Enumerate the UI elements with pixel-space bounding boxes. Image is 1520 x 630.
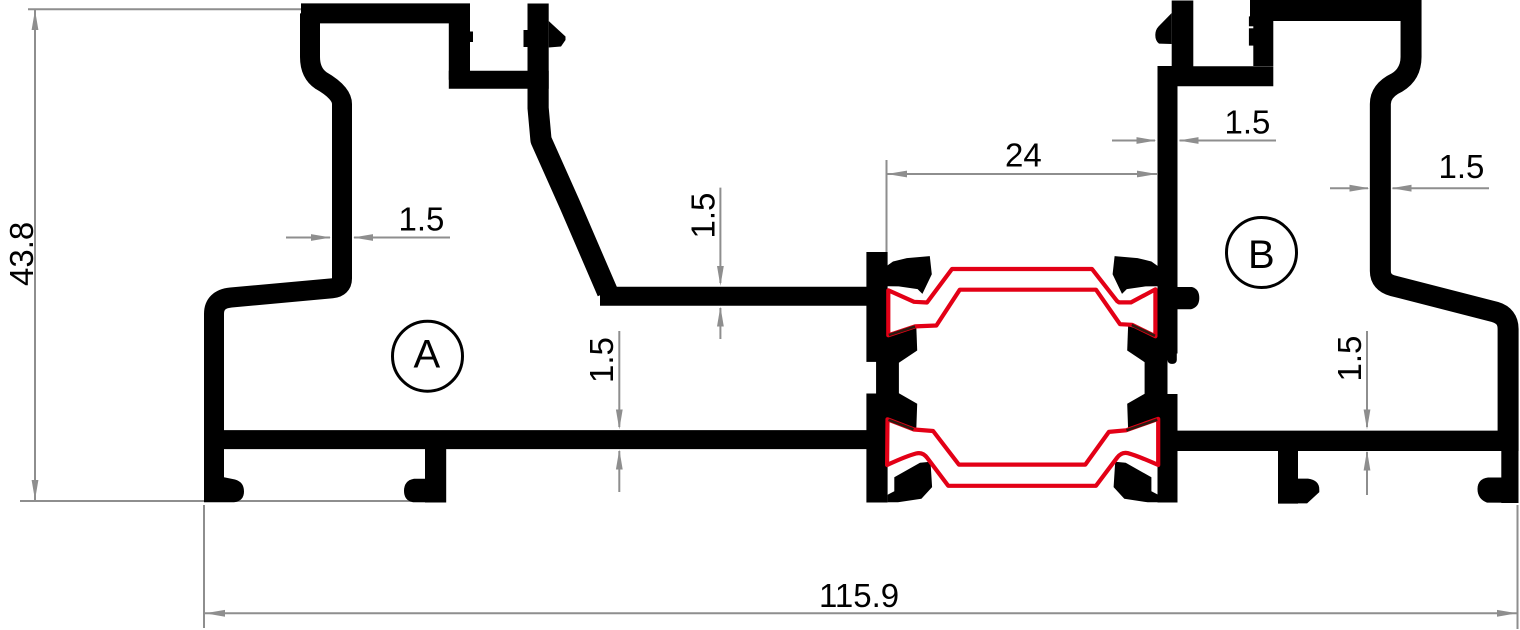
thermal break strip top (red): [888, 269, 1155, 336]
profile A foot 2 bar: [425, 449, 446, 503]
dimension 43.8 line: [34, 10, 36, 500]
profile A bottom wall: [204, 430, 877, 449]
dimension 24 arrow left: [887, 171, 907, 178]
profile A foot 2 toe: [404, 479, 446, 503]
dimension 1.5 A-bottom-wall line and arrows: [618, 331, 620, 427]
dimension 43.8 extension line bottom: [20, 500, 445, 502]
svg-text:43.8: 43.8: [3, 222, 40, 286]
dark dovetail edge bottom-right: [1127, 420, 1158, 431]
profile B middle foot toe: [1278, 479, 1319, 504]
dimension 115.9 arrow left: [205, 610, 225, 617]
profile B barb: [1155, 13, 1171, 44]
profile B stub serration 1: [1249, 16, 1254, 26]
label circle A: [393, 321, 463, 391]
svg-text:115.9: 115.9: [819, 577, 899, 614]
svg-text:24: 24: [1005, 137, 1042, 174]
profile A channel wall 2 and diagonal: [538, 4, 607, 293]
dimension 115.9 extension line left: [203, 505, 205, 628]
profile A clamp wedge below top strip: [886, 326, 917, 363]
profile A top cap: [301, 3, 470, 23]
profile B clamp wedge above bottom strip: [1127, 393, 1158, 429]
profile B clamp wedge below top strip: [1127, 326, 1158, 363]
profile A channel wall 1: [449, 13, 470, 79]
svg-text:1.5: 1.5: [685, 193, 722, 239]
profile B right foot bar: [1501, 451, 1518, 503]
svg-text:1.5: 1.5: [1225, 104, 1271, 141]
profile B clamp neck notch: [1168, 354, 1179, 395]
profile B right nub: [1178, 287, 1200, 309]
profile A foot 1 toe: [204, 465, 244, 502]
profile A barb: [549, 21, 566, 48]
dimension 1.5 B-right-wall arrows: [1330, 187, 1368, 189]
profile A left wall and shelf: [214, 13, 342, 502]
profile A clamp neck notch: [865, 362, 876, 394]
dimension 43.8 arrow up: [32, 10, 39, 30]
profile A channel wall2 serration: [524, 30, 528, 47]
dimension 24 arrow right: [1137, 171, 1157, 178]
profile B clamp flag jaw: [1113, 256, 1159, 294]
profile B bottom wall: [1167, 431, 1508, 451]
label circle B: [1227, 218, 1297, 288]
dimension 115.9 line: [205, 612, 1517, 614]
dimension 24 line: [887, 173, 1157, 175]
svg-text:A: A: [414, 333, 441, 377]
profile A clamp flag jaw: [886, 256, 932, 294]
svg-text:1.5: 1.5: [583, 337, 620, 383]
profile B clamp foot wedge: [1114, 462, 1159, 503]
dimension 24 extension line: [886, 160, 888, 286]
profile A channel wall1 serration: [470, 32, 473, 43]
profile A clamp wedge above bottom strip: [886, 393, 917, 429]
profile A clamp foot wedge: [888, 462, 933, 503]
dark dovetail edge bottom-left: [889, 420, 914, 430]
profile B top stub: [1172, 1, 1194, 71]
profile B stub serration 2: [1249, 28, 1254, 45]
profile A clamp neck block: [876, 362, 899, 395]
svg-text:1.5: 1.5: [1439, 148, 1485, 185]
profile B channel bottom shelf: [1158, 66, 1274, 86]
svg-text:B: B: [1248, 233, 1275, 277]
profile B channel wall 2 stub: [1253, 1, 1273, 67]
dark dovetail edge top-right: [1132, 325, 1155, 336]
profile A clamp column bar: [866, 252, 887, 503]
dimension 1.5 A-web line and arrows: [719, 188, 721, 283]
dimension 115.9 arrow right: [1497, 610, 1517, 617]
profile B clamp neck bump: [1168, 348, 1177, 364]
profile B middle foot bar: [1278, 449, 1298, 504]
dimension 115.9 extension line right: [1517, 505, 1519, 629]
profile A channel bottom: [449, 71, 549, 89]
dimension 1.5 A-left-wall arrows: [286, 237, 330, 239]
profile B top cap and right wall: [1250, 11, 1508, 451]
dark dovetail edge top-left: [889, 327, 915, 336]
dimension 1.5 B-bottom-wall line and arrows: [1366, 331, 1368, 427]
profile B right foot toe: [1478, 478, 1519, 503]
dimension 43.8 arrow down: [32, 480, 39, 500]
profile B left wall: [1158, 66, 1178, 503]
dimension 1.5 B-left-wall arrows: [1112, 140, 1155, 142]
dimension 43.8 extension line top: [28, 8, 301, 10]
thermal break strip bottom (red): [887, 419, 1158, 486]
profile A web: [600, 287, 877, 306]
profile B clamp neck block: [1145, 362, 1168, 395]
svg-text:1.5: 1.5: [1331, 336, 1368, 382]
svg-text:1.5: 1.5: [399, 201, 445, 238]
